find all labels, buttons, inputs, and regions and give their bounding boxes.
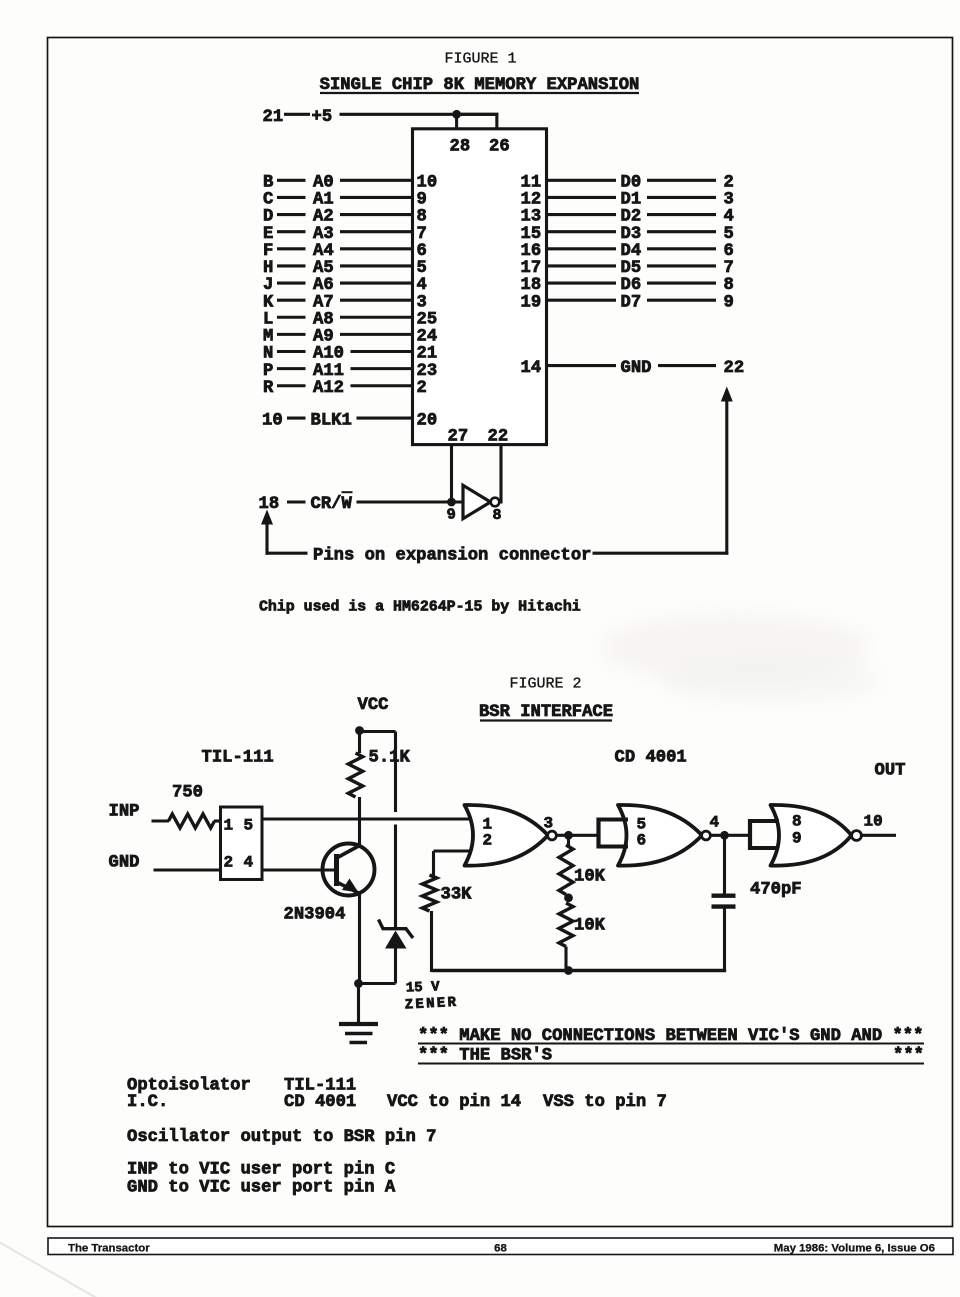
wire address A12 (connector R to pin 2)	[263, 379, 427, 398]
resistor R3 33K	[422, 875, 436, 911]
svg-text:6: 6	[637, 832, 647, 850]
transistor Q1 2N3904	[323, 844, 375, 896]
svg-text:GND to VIC user port pin A: GND to VIC user port pin A	[127, 1179, 396, 1198]
footer box	[48, 1238, 953, 1255]
wire 750 to optoisolator pin 1	[214, 819, 221, 822]
svg-text:8: 8	[792, 813, 802, 831]
wire +5 to pin 26	[457, 114, 499, 129]
node +5 / pin 21 of expansion connector	[263, 108, 333, 127]
svg-text:3: 3	[544, 815, 554, 833]
svg-text:21: 21	[263, 108, 284, 127]
svg-text:68: 68	[494, 1243, 507, 1255]
wire pin 22 to inverter output	[499, 445, 502, 504]
pin 22 label	[488, 428, 509, 447]
svg-text:D7: D7	[621, 293, 642, 312]
wire pin 5 to NOR gate input 1	[262, 817, 470, 820]
svg-text:19: 19	[521, 293, 542, 312]
svg-text:26: 26	[489, 138, 510, 157]
svg-text:I.C.: I.C.	[127, 1093, 168, 1112]
label 750	[172, 784, 203, 803]
wire data D5 (pin 17 to connector 7)	[521, 259, 734, 278]
wire BLK1 (connector 10 to pin 20)	[262, 411, 437, 430]
nor gate U4c pin 9 label	[792, 830, 802, 848]
capacitor C1 470pF	[712, 896, 736, 907]
junction pin 27 / CR-W	[447, 498, 456, 507]
wire NOR3 output OUT	[862, 834, 897, 837]
wire data D4 (pin 16 to connector 6)	[521, 242, 734, 261]
svg-text:BSR INTERFACE: BSR INTERFACE	[479, 703, 613, 722]
footer magazine name	[68, 1243, 150, 1255]
nor gate U4c pin 8 label	[792, 813, 802, 831]
label pins on expansion connector	[313, 547, 591, 566]
junction NOR1 output node	[564, 831, 573, 840]
svg-text:9: 9	[446, 506, 457, 524]
svg-text:20: 20	[417, 411, 438, 430]
wire to ground	[357, 984, 360, 1023]
label VCC	[358, 696, 389, 715]
svg-text:5: 5	[244, 817, 254, 835]
svg-text:ZENER: ZENER	[404, 995, 458, 1014]
nor gate U4b output bubble	[702, 831, 711, 840]
wire data D6 (pin 18 to connector 8)	[521, 276, 734, 295]
wire 10K to bus	[564, 947, 567, 973]
svg-text:+5: +5	[312, 108, 333, 127]
svg-text:FIGURE 2: FIGURE 2	[509, 676, 581, 693]
zener diode D1 triangle	[385, 931, 407, 949]
wire 33K to bus	[430, 911, 433, 972]
label INP	[109, 803, 140, 822]
svg-text:OUT: OUT	[875, 762, 906, 781]
wire +5 to pin 28	[455, 114, 458, 129]
nor gate U4c input bracket	[749, 819, 780, 850]
svg-text:The Transactor: The Transactor	[68, 1243, 150, 1255]
svg-text:2: 2	[417, 379, 427, 398]
inverter pin 9 label	[446, 506, 457, 524]
nor gate U4a pin 1 label	[483, 816, 493, 834]
figure 2 caption	[509, 676, 581, 693]
note optoisolator	[127, 1077, 356, 1096]
svg-text:BLK1: BLK1	[311, 411, 352, 430]
wire +5 rail	[340, 113, 499, 116]
svg-text:R: R	[263, 379, 274, 398]
svg-text:27: 27	[448, 428, 469, 447]
svg-text:May 1986: Volume 6, Issue O6: May 1986: Volume 6, Issue O6	[774, 1243, 935, 1255]
svg-text:9: 9	[792, 830, 802, 848]
nor gate U4b pin 5 label	[637, 816, 647, 834]
warning line 1	[418, 1027, 924, 1046]
svg-text:INP: INP	[109, 803, 140, 822]
svg-text:4: 4	[244, 854, 254, 872]
wire zener upper lead	[394, 825, 397, 930]
footer page number	[494, 1243, 507, 1255]
svg-text:22: 22	[724, 359, 745, 378]
wire address A9 (connector M to pin 24)	[263, 328, 437, 347]
node CR/W / pin 18 of expansion connector	[259, 492, 353, 514]
figure 2 title	[479, 703, 613, 722]
wire data D1 (pin 12 to connector 3)	[521, 191, 734, 210]
figure 1 title	[320, 76, 640, 95]
svg-text:8: 8	[493, 507, 502, 524]
junction +5 / pin 28	[452, 110, 461, 119]
svg-text:TIL-111: TIL-111	[202, 749, 274, 768]
wire pin 4 to transistor base	[262, 868, 334, 871]
label 33K	[441, 886, 473, 905]
zener diode D1 cathode bar	[379, 920, 414, 939]
wire emitter down	[358, 894, 361, 986]
nor gate U4b pin 4 label	[710, 814, 720, 832]
junction NOR2 output node	[720, 831, 729, 840]
nor gate U4b pin 6 label	[637, 832, 647, 850]
pin 27 label	[448, 428, 469, 447]
inverter U2 74xx04 triangle	[463, 485, 491, 518]
note INP	[127, 1161, 395, 1180]
svg-text:Chip used is a HM6264P-15 by H: Chip used is a HM6264P-15 by Hitachi	[259, 600, 581, 616]
label chip used caption	[259, 600, 581, 616]
optoisolator pin 4 label	[244, 854, 254, 872]
svg-text:CR/W: CR/W	[311, 495, 353, 514]
svg-text:Oscillator output to BSR pin 7: Oscillator output to BSR pin 7	[127, 1128, 436, 1147]
svg-text:2N3904: 2N3904	[284, 906, 346, 925]
svg-text:4: 4	[710, 814, 720, 832]
optoisolator U3 TIL-111 body	[221, 807, 263, 880]
label 10K upper	[574, 868, 606, 887]
label OUT	[875, 762, 906, 781]
label CD 4001	[615, 749, 687, 768]
svg-text:2: 2	[483, 832, 493, 850]
resistor R4 10K upper	[559, 845, 573, 895]
resistor R1 750	[169, 814, 215, 828]
wire address A3 (connector E to pin 7)	[263, 225, 427, 244]
wire CR/W to inverter	[357, 500, 464, 503]
wire address A7 (connector K to pin 3)	[263, 293, 427, 312]
junction 10K midpoint	[564, 893, 573, 902]
wire VCC to 5.1K resistor	[358, 731, 361, 754]
svg-text:INP to VIC user port pin C: INP to VIC user port pin C	[127, 1161, 395, 1180]
wire expansion-connector callout left riser	[261, 510, 308, 555]
label 15V zener	[404, 979, 458, 1013]
label 5.1K	[369, 749, 411, 768]
svg-text:10: 10	[864, 813, 883, 831]
wire NOR1 out to NOR2 in	[556, 834, 598, 837]
junction bus / 10K	[564, 966, 573, 975]
wire expansion-connector callout right riser	[721, 387, 733, 555]
svg-text:VCC: VCC	[358, 696, 389, 715]
figure 1 caption	[444, 51, 516, 68]
label 2N3904	[284, 906, 346, 925]
optoisolator pin 5 label	[244, 817, 254, 835]
label 10K lower	[574, 917, 606, 936]
svg-text:10K: 10K	[574, 917, 606, 936]
wire 10K top lead	[567, 835, 570, 846]
wire address A10 (connector N to pin 21)	[263, 345, 437, 364]
svg-text:FIGURE 1: FIGURE 1	[444, 51, 516, 68]
wire address A6 (connector J to pin 4)	[263, 276, 427, 295]
svg-text:2: 2	[224, 854, 234, 872]
svg-text:Pins on expansion connector: Pins on expansion connector	[313, 547, 591, 566]
svg-text:VSS to pin 7: VSS to pin 7	[543, 1093, 667, 1112]
nor gate U4c body	[771, 805, 852, 866]
wire data D7 (pin 19 to connector 9)	[521, 293, 734, 312]
footer issue	[774, 1243, 935, 1255]
ground symbol	[339, 1024, 378, 1043]
nor gate U4a body	[465, 805, 549, 866]
wire data D3 (pin 15 to connector 5)	[521, 225, 734, 244]
svg-text:10: 10	[262, 411, 283, 430]
svg-text:VCC to pin 14: VCC to pin 14	[387, 1093, 521, 1112]
wire address A2 (connector D to pin 8)	[263, 208, 427, 227]
optoisolator pin 1 label	[224, 817, 234, 835]
pin 26 label	[489, 138, 510, 157]
svg-text:18: 18	[259, 495, 280, 514]
nor gate U4a pin 3 label	[544, 815, 554, 833]
label TIL-111	[202, 749, 274, 768]
svg-text:33K: 33K	[441, 886, 473, 905]
wire address A5 (connector H to pin 5)	[263, 259, 427, 278]
svg-text:750: 750	[172, 784, 203, 803]
junction VCC node	[355, 726, 364, 735]
scan ghost smudges (decorative)	[0, 614, 880, 1297]
wire address A8 (connector L to pin 25)	[263, 310, 437, 329]
svg-text:CD 4001: CD 4001	[284, 1093, 356, 1112]
wire capacitor to bus	[723, 909, 726, 973]
wire junction to capacitor	[723, 835, 726, 894]
wire data D2 (pin 13 to connector 4)	[521, 208, 734, 227]
note GND	[127, 1179, 396, 1198]
wire NOR1 input 2	[434, 851, 471, 876]
nor gate U4c output bubble	[852, 831, 862, 841]
svg-text:GND: GND	[621, 359, 652, 378]
svg-text:10K: 10K	[574, 868, 606, 887]
svg-text:A12: A12	[313, 379, 344, 398]
svg-text:9: 9	[724, 293, 734, 312]
label GND	[109, 854, 140, 873]
svg-text:1: 1	[224, 817, 234, 835]
svg-text:GND: GND	[109, 854, 140, 873]
nor gate U4a output bubble	[548, 831, 557, 840]
wire INP lead	[152, 819, 170, 822]
wire GND (pin 14 to connector 22)	[521, 359, 745, 378]
resistor R2 5.1K	[348, 753, 362, 797]
label 470pF	[750, 881, 802, 900]
svg-text:14: 14	[521, 359, 542, 378]
pin 28 label	[450, 138, 471, 157]
wire address A0 (connector B to pin 10)	[263, 174, 437, 193]
wire zener lower lead	[359, 949, 396, 984]
svg-text:CD 4001: CD 4001	[615, 749, 687, 768]
wire VCC to zener top	[360, 732, 396, 813]
wire address A11 (connector P to pin 23)	[263, 362, 437, 381]
nor gate U4c pin 10 label	[864, 813, 883, 831]
wire data D0 (pin 11 to connector 2)	[521, 174, 734, 193]
note oscillator	[127, 1128, 436, 1147]
wire 5.1K to collector	[358, 797, 361, 846]
nor gate U4b input bracket	[597, 818, 628, 849]
svg-text:5.1K: 5.1K	[369, 749, 411, 768]
wire address A1 (connector C to pin 9)	[263, 191, 427, 210]
svg-text:15 V: 15 V	[406, 979, 441, 996]
wire NOR2 out to NOR3 in	[710, 834, 750, 837]
note IC	[127, 1093, 667, 1112]
wire pin 27 to inverter input	[450, 445, 453, 504]
nor gate U4a pin 2 label	[483, 832, 493, 850]
wire address A4 (connector F to pin 6)	[263, 242, 427, 261]
IC U1 HM6264 body	[413, 129, 547, 445]
optoisolator pin 2 label	[224, 854, 234, 872]
warning line 2	[418, 1047, 924, 1066]
wire GND to optoisolator pin 2	[154, 868, 221, 871]
svg-text:28: 28	[450, 138, 471, 157]
inverter output bubble	[491, 498, 500, 507]
wire fig2 bottom bus	[432, 969, 727, 973]
svg-text:22: 22	[488, 428, 509, 447]
resistor R5 10K lower	[559, 903, 573, 947]
inverter pin 8 label	[493, 507, 502, 524]
svg-text:470pF: 470pF	[750, 881, 802, 900]
junction emitter / zener return	[354, 979, 363, 988]
wire callout horizontal	[593, 552, 729, 555]
nor gate U4b body	[618, 805, 702, 866]
